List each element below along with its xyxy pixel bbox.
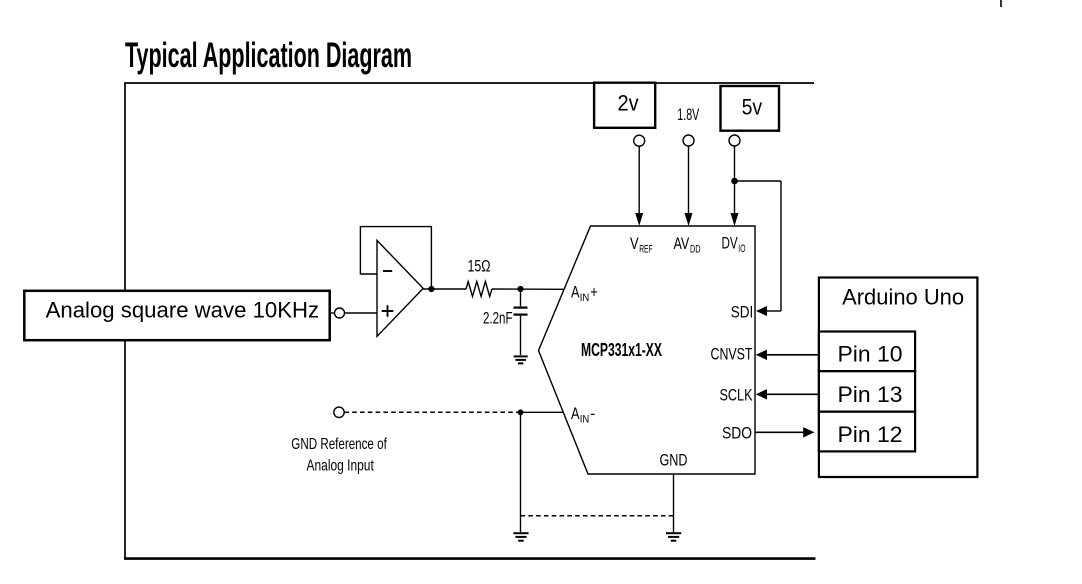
terminal: 2v circle	[634, 135, 645, 146]
page tick top right	[1000, 0, 1002, 7]
svg-text:Pin 10: Pin 10	[838, 342, 903, 367]
wire: 2v to VREF with arrow	[638, 146, 640, 214]
box: Pin 10	[819, 332, 915, 372]
node: op-amp output junction	[428, 286, 434, 292]
svg-text:IO: IO	[738, 243, 745, 255]
ground: below GND pin	[666, 533, 681, 541]
svg-text:MCP331x1-XX: MCP331x1-XX	[581, 340, 662, 360]
op-amp minus sign	[383, 270, 392, 272]
svg-text:IN: IN	[580, 292, 590, 304]
svg-text:GND: GND	[660, 451, 688, 470]
svg-text:SCLK: SCLK	[720, 386, 753, 405]
wire: Pin 13 to SCLK with arrow	[766, 393, 818, 395]
svg-text:15Ω: 15Ω	[468, 257, 491, 276]
node: RC junction	[517, 286, 523, 292]
svg-text:Pin 12: Pin 12	[838, 422, 903, 447]
wire: down right side	[780, 181, 782, 311]
svg-text:-: -	[590, 404, 595, 423]
ground: below AIN- node	[513, 533, 528, 541]
box: Analog square wave 10KHz	[24, 291, 329, 340]
node: 5v branch junction	[731, 178, 738, 185]
wire: resistor to AIN+ pin	[492, 288, 564, 290]
wire: node down to ground	[520, 412, 522, 532]
op-amp U1	[377, 240, 423, 336]
svg-text:+: +	[590, 283, 598, 302]
svg-text:CNVST: CNVST	[711, 345, 753, 364]
resistor R 15ohm	[466, 282, 492, 297]
svg-text:1.8V: 1.8V	[677, 105, 699, 124]
svg-text:DV: DV	[722, 234, 739, 253]
terminal: 5v circle	[729, 135, 740, 146]
wire: 5v to DVIO with arrow	[734, 146, 736, 214]
ground: below capacitor	[514, 356, 528, 363]
terminal: GND reference circle	[334, 407, 344, 417]
box: 5v supply	[721, 86, 780, 131]
wire: Pin 10 to CNVST with arrow	[766, 354, 818, 356]
box: Arduino Uno	[819, 278, 978, 478]
svg-text:SDI: SDI	[731, 303, 754, 322]
svg-text:Analog square wave 10KHz: Analog square wave 10KHz	[46, 298, 320, 323]
node: AIN- junction	[518, 409, 524, 415]
wire: junction down to capacitor	[520, 289, 522, 306]
svg-text:Pin 13: Pin 13	[838, 382, 903, 407]
svg-text:Analog Input: Analog Input	[307, 458, 375, 475]
box: Pin 12	[819, 412, 915, 452]
wire: dashed GND ref to AIN- node	[344, 411, 520, 413]
IC U2 MCP331x1-XX body	[539, 226, 756, 474]
wire: junction to right	[735, 180, 782, 182]
border frame (open right side)	[125, 83, 814, 559]
wire: node to AIN- pin	[521, 411, 564, 413]
svg-text:Arduino Uno: Arduino Uno	[842, 285, 964, 310]
wire: terminal to op-amp plus input	[345, 312, 377, 314]
capacitor C 2.2nF	[514, 307, 528, 309]
box: 2v supply	[594, 83, 655, 128]
svg-text:5v: 5v	[742, 95, 763, 120]
svg-text:IN: IN	[580, 414, 590, 426]
svg-text:2v: 2v	[618, 91, 639, 116]
op-amp plus sign	[382, 305, 394, 317]
wire: dashed ground bus	[521, 515, 674, 517]
wire: capacitor to ground	[520, 316, 522, 355]
wire: into SDI with arrow	[766, 310, 781, 312]
wire: op-amp minus feedback loop	[360, 227, 431, 289]
svg-text:V: V	[630, 234, 639, 253]
svg-text:A: A	[571, 283, 580, 302]
svg-text:DD: DD	[690, 243, 701, 255]
box: Pin 13	[819, 371, 915, 412]
svg-text:GND Reference of: GND Reference of	[291, 436, 387, 453]
wire: SDO to Pin 12 with arrow	[755, 431, 804, 433]
wire: op-amp output to resistor	[423, 288, 466, 290]
svg-text:A: A	[571, 404, 580, 423]
wire: 1.8V to AVDD with arrow	[688, 146, 690, 214]
svg-text:REF: REF	[639, 243, 653, 255]
svg-text:SDO: SDO	[722, 424, 752, 443]
svg-text:Typical Application Diagram: Typical Application Diagram	[125, 36, 412, 75]
svg-text:AV: AV	[674, 234, 690, 253]
terminal: 1.8V circle	[683, 135, 694, 146]
terminal: analog input circle	[335, 308, 345, 318]
svg-text:2.2nF: 2.2nF	[483, 309, 513, 328]
wire: box to input terminal	[331, 312, 334, 314]
wire: GND pin down to ground	[673, 474, 675, 532]
